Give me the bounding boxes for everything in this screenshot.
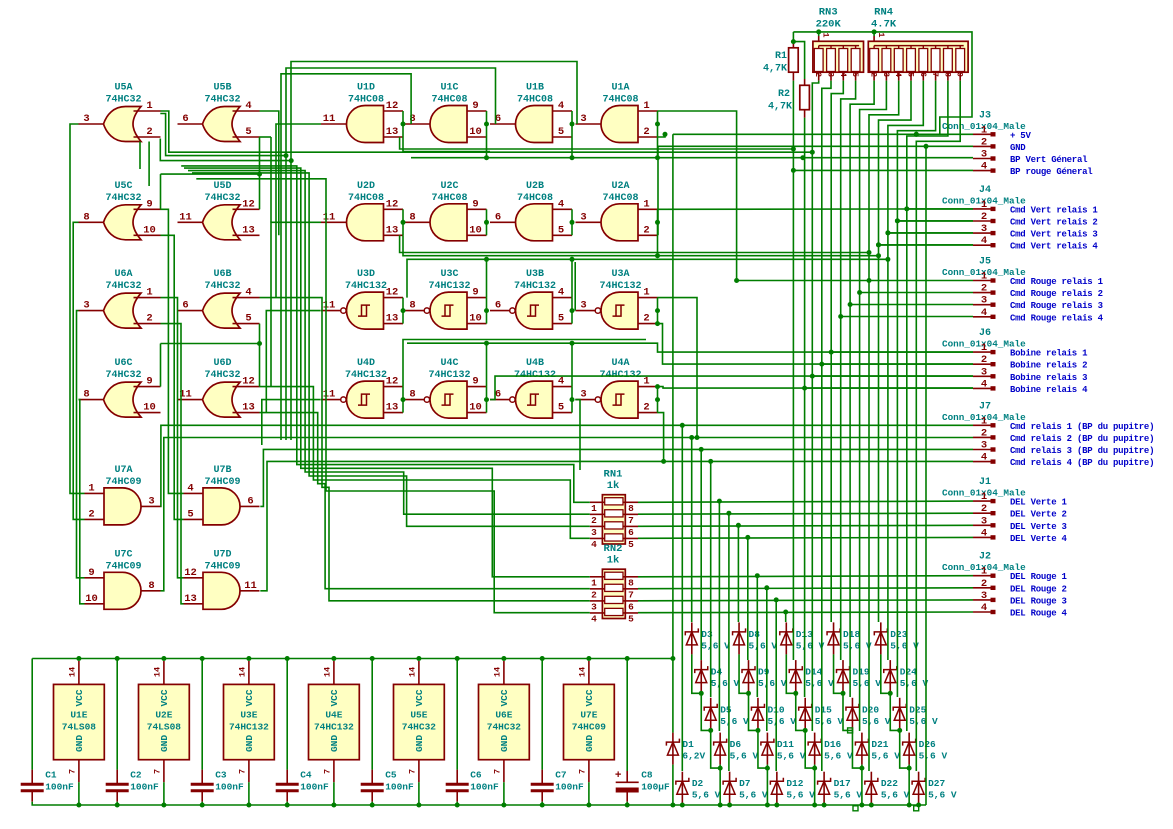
wire (486, 298, 488, 324)
Schmitt NAND gate U4D (321, 358, 403, 418)
svg-text:74HC32: 74HC32 (204, 281, 240, 292)
svg-text:74HC08: 74HC08 (517, 95, 553, 106)
wire (32, 802, 926, 805)
svg-text:74HC32: 74HC32 (204, 370, 240, 381)
wire (638, 611, 973, 614)
junction (484, 397, 489, 402)
svg-text:5,6 V: 5,6 V (796, 640, 825, 651)
wire (286, 802, 288, 805)
svg-text:10: 10 (469, 313, 482, 325)
svg-text:13: 13 (386, 313, 399, 325)
junction (484, 257, 489, 262)
wire (719, 765, 721, 805)
junction (501, 803, 506, 808)
wire (626, 802, 628, 805)
junction (745, 535, 750, 540)
svg-text:74HC08: 74HC08 (348, 193, 384, 204)
zener diode D18 (827, 622, 872, 654)
junction (401, 220, 406, 225)
svg-text:R1: R1 (775, 51, 787, 62)
capacitor C5 (361, 770, 414, 802)
zener diode D22 (865, 772, 910, 804)
wire (897, 220, 973, 222)
svg-text:3: 3 (981, 223, 987, 235)
wire (657, 209, 659, 235)
wire (673, 133, 973, 135)
junction (907, 766, 912, 771)
svg-text:74HC08: 74HC08 (602, 95, 638, 106)
wire (747, 537, 749, 660)
svg-text:1: 1 (981, 491, 987, 503)
wire (571, 259, 573, 297)
wire (672, 134, 674, 732)
svg-text:DEL Rouge 4: DEL Rouge 4 (1010, 609, 1068, 619)
connector J6 Conn_01x04_Male (942, 328, 1088, 395)
wire (812, 375, 973, 377)
svg-text:5: 5 (558, 313, 564, 325)
capacitor C6 (446, 770, 499, 802)
junction (200, 656, 205, 661)
svg-text:U2B: U2B (526, 181, 544, 192)
svg-text:2: 2 (591, 515, 597, 526)
svg-text:9: 9 (472, 100, 478, 112)
wire (812, 81, 818, 731)
svg-text:DEL Verte 2: DEL Verte 2 (1010, 510, 1067, 520)
svg-text:74HC09: 74HC09 (572, 722, 607, 733)
wire (486, 111, 488, 137)
svg-text:74LS08: 74LS08 (147, 722, 182, 733)
svg-text:6,2V: 6,2V (682, 751, 705, 762)
svg-text:74HC32: 74HC32 (487, 722, 522, 733)
junction (661, 459, 666, 464)
svg-text:8: 8 (148, 580, 154, 592)
svg-text:11: 11 (323, 113, 336, 125)
junction (869, 803, 874, 808)
wire (402, 298, 404, 324)
junction (708, 728, 713, 733)
OR gate U5C (79, 181, 161, 240)
svg-text:5,6 V: 5,6 V (881, 790, 910, 801)
svg-text:U2C: U2C (440, 181, 458, 192)
junction (812, 766, 817, 771)
resistor network RN4 (868, 7, 968, 81)
wire (73, 222, 84, 519)
svg-text:1: 1 (981, 199, 987, 211)
wire (196, 179, 590, 613)
svg-text:C7: C7 (555, 770, 567, 781)
svg-text:5,6 V: 5,6 V (701, 640, 730, 651)
wire (785, 612, 787, 622)
svg-text:U2D: U2D (357, 181, 375, 192)
zener diode D3 (685, 622, 730, 654)
svg-text:2: 2 (643, 224, 649, 236)
svg-text:4: 4 (981, 307, 987, 319)
svg-text:9: 9 (955, 72, 964, 77)
wire (879, 81, 912, 622)
junction (699, 691, 704, 696)
svg-text:4: 4 (558, 287, 564, 299)
wire (77, 311, 85, 578)
junction (331, 803, 336, 808)
svg-text:D16: D16 (824, 739, 841, 750)
wire (78, 782, 80, 805)
AND gate U2C (405, 181, 487, 241)
wire (831, 351, 973, 353)
svg-text:5,6 V: 5,6 V (767, 716, 796, 727)
junction (370, 803, 375, 808)
junction (689, 435, 694, 440)
svg-text:U1B: U1B (526, 83, 544, 94)
svg-text:74HC132: 74HC132 (514, 281, 556, 292)
junction (885, 230, 890, 235)
svg-text:2: 2 (981, 354, 987, 366)
svg-text:5: 5 (187, 508, 193, 520)
junction (726, 511, 731, 516)
svg-text:100nF: 100nF (555, 782, 584, 793)
svg-text:U7D: U7D (213, 549, 231, 560)
junction (876, 253, 881, 258)
svg-text:9: 9 (472, 376, 478, 388)
svg-text:VCC: VCC (329, 689, 340, 706)
wire (658, 208, 974, 210)
junction (816, 29, 821, 34)
AND gate U7C (85, 549, 161, 609)
junction (680, 803, 685, 808)
AND gate U7A (85, 465, 161, 525)
svg-text:7: 7 (628, 589, 634, 600)
wire (739, 654, 748, 693)
junction (161, 656, 166, 661)
svg-text:4: 4 (893, 72, 902, 77)
junction (695, 435, 700, 440)
wire (333, 782, 335, 805)
wire (897, 220, 973, 222)
wire (658, 146, 973, 235)
junction (246, 656, 251, 661)
wire (116, 802, 118, 805)
junction (734, 278, 739, 283)
svg-text:9: 9 (472, 287, 478, 299)
svg-text:2: 2 (591, 589, 597, 600)
svg-text:U6B: U6B (213, 269, 231, 280)
wire (31, 659, 33, 770)
svg-text:74HC132: 74HC132 (428, 281, 470, 292)
Schmitt NAND gate U4A (576, 358, 658, 418)
power unit U1E 74LS08 (54, 661, 105, 782)
svg-text:5: 5 (245, 313, 251, 325)
junction (401, 122, 406, 127)
svg-text:100nF: 100nF (470, 782, 499, 793)
svg-text:14: 14 (67, 667, 77, 677)
no-connect square (853, 806, 858, 811)
connector J3 Conn_01x04_Male (942, 110, 1093, 177)
junction (764, 585, 769, 590)
junction (331, 656, 336, 661)
wire (658, 298, 698, 438)
svg-text:8: 8 (83, 389, 89, 401)
OR gate U6D (178, 358, 260, 417)
svg-text:1: 1 (981, 566, 987, 578)
wire (672, 765, 674, 805)
svg-text:1: 1 (146, 100, 152, 112)
svg-text:3: 3 (981, 366, 987, 378)
junction (484, 341, 489, 346)
wire (281, 74, 411, 440)
wire (691, 438, 693, 623)
svg-text:Cmd relais 3 (BP du pupitre): Cmd relais 3 (BP du pupitre) (1010, 446, 1154, 456)
wire (888, 232, 973, 234)
wire (486, 259, 488, 297)
junction (924, 144, 929, 149)
junction (655, 122, 660, 127)
wire (814, 765, 816, 805)
svg-text:3: 3 (981, 295, 987, 307)
svg-text:5: 5 (628, 613, 634, 624)
svg-text:Cmd Vert relais 2: Cmd Vert relais 2 (1010, 218, 1098, 228)
Schmitt NAND gate U3B (490, 269, 572, 329)
wire (541, 659, 543, 770)
junction (746, 691, 751, 696)
wire (541, 802, 543, 805)
wire (291, 62, 577, 441)
wire (657, 137, 659, 158)
svg-text:2: 2 (981, 578, 987, 590)
wire (681, 425, 683, 771)
junction (793, 691, 798, 696)
junction (540, 803, 545, 808)
svg-text:74HC32: 74HC32 (402, 722, 437, 733)
svg-text:GND: GND (584, 735, 595, 752)
svg-text:4: 4 (981, 602, 987, 614)
svg-text:8: 8 (628, 577, 634, 588)
svg-text:14: 14 (577, 667, 587, 677)
svg-text:5,6 V: 5,6 V (928, 790, 957, 801)
zener diode D8 (733, 622, 778, 654)
connector J4 Conn_01x04_Male (942, 185, 1098, 252)
junction (76, 803, 81, 808)
svg-text:12: 12 (184, 567, 197, 579)
svg-text:D12: D12 (786, 778, 803, 789)
svg-text:3: 3 (591, 527, 597, 538)
svg-text:100nF: 100nF (130, 782, 159, 793)
svg-text:5,6 V: 5,6 V (730, 751, 759, 762)
svg-text:C2: C2 (130, 770, 142, 781)
svg-text:1: 1 (643, 287, 649, 299)
wire (729, 804, 731, 805)
wire (571, 298, 573, 324)
svg-text:U2E: U2E (155, 710, 172, 721)
wire (841, 316, 973, 318)
AND gate U1D (321, 83, 403, 143)
svg-text:3: 3 (981, 440, 987, 452)
svg-text:3: 3 (881, 72, 890, 77)
AND gate U1A (576, 83, 658, 143)
wire (571, 137, 573, 158)
svg-text:U6D: U6D (213, 358, 231, 369)
svg-text:5,6 V: 5,6 V (890, 640, 919, 651)
wire (758, 730, 767, 768)
svg-text:U4B: U4B (526, 358, 544, 369)
junction (570, 220, 575, 225)
wire (850, 81, 874, 697)
svg-text:3: 3 (580, 113, 586, 125)
svg-text:74HC132: 74HC132 (599, 281, 641, 292)
wire (638, 501, 973, 502)
wire (681, 804, 683, 805)
wire (259, 324, 261, 387)
wire (822, 363, 973, 365)
zener diode D24 (884, 660, 929, 692)
junction (655, 308, 660, 313)
junction (625, 656, 630, 661)
wire (270, 137, 272, 222)
svg-text:4: 4 (187, 482, 193, 494)
svg-text:D23: D23 (890, 629, 907, 640)
svg-text:U3A: U3A (611, 269, 629, 280)
junction (200, 803, 205, 808)
OR gate U5B (178, 83, 260, 142)
svg-text:100nF: 100nF (45, 782, 74, 793)
svg-text:74HC32: 74HC32 (105, 95, 141, 106)
svg-text:U7B: U7B (213, 465, 231, 476)
svg-text:J7: J7 (979, 401, 991, 412)
svg-text:11: 11 (323, 300, 336, 312)
svg-text:5: 5 (558, 126, 564, 138)
wire (201, 802, 203, 805)
svg-text:U2A: U2A (611, 181, 629, 192)
svg-text:D22: D22 (881, 778, 898, 789)
svg-text:U3C: U3C (440, 269, 458, 280)
svg-text:10: 10 (469, 126, 482, 138)
svg-text:DEL Rouge 2: DEL Rouge 2 (1010, 584, 1067, 594)
wire (148, 142, 150, 187)
wire (900, 730, 909, 768)
svg-text:Bobine relais 4: Bobine relais 4 (1010, 385, 1088, 395)
wire (402, 387, 404, 413)
junction (736, 523, 741, 528)
wire (822, 81, 831, 771)
svg-text:3: 3 (981, 515, 987, 527)
junction (774, 597, 779, 602)
wire (403, 137, 490, 152)
wire (888, 81, 923, 660)
wire (571, 387, 573, 413)
svg-text:2: 2 (869, 72, 878, 77)
svg-text:3: 3 (591, 601, 597, 612)
svg-text:U5B: U5B (213, 83, 231, 94)
svg-text:9: 9 (146, 198, 152, 210)
svg-text:12: 12 (386, 376, 399, 388)
svg-text:U1D: U1D (357, 83, 375, 94)
wire (503, 782, 505, 805)
svg-text:5,6 V: 5,6 V (711, 678, 740, 689)
resistor network RN1 (590, 469, 638, 550)
junction (655, 220, 660, 225)
svg-text:U1A: U1A (611, 83, 629, 94)
svg-text:5,6 V: 5,6 V (824, 751, 853, 762)
junction (586, 803, 591, 808)
wire (161, 343, 260, 345)
svg-text:4: 4 (558, 376, 564, 388)
svg-text:74HC32: 74HC32 (105, 193, 141, 204)
wire (188, 171, 590, 515)
wire (407, 259, 888, 297)
svg-text:D27: D27 (928, 778, 945, 789)
AND gate U1B (490, 83, 572, 143)
zener diode D17 (818, 772, 863, 804)
svg-text:13: 13 (386, 126, 399, 138)
wire (260, 413, 590, 589)
svg-text:12: 12 (386, 100, 399, 112)
junction (718, 766, 723, 771)
junction (455, 656, 460, 661)
svg-text:7: 7 (67, 769, 77, 774)
junction (888, 691, 893, 696)
svg-text:U6A: U6A (114, 269, 132, 280)
svg-text:4: 4 (981, 378, 987, 390)
svg-text:11: 11 (244, 580, 257, 592)
svg-text:U4C: U4C (440, 358, 458, 369)
wire (262, 400, 321, 445)
svg-text:100nF: 100nF (215, 782, 244, 793)
junction (284, 153, 289, 158)
junction (755, 728, 760, 733)
wire (486, 137, 488, 158)
junction (484, 155, 489, 160)
power unit U3E 74HC132 (224, 661, 275, 782)
svg-text:74HC132: 74HC132 (345, 370, 387, 381)
svg-text:2: 2 (981, 503, 987, 515)
svg-text:13: 13 (242, 224, 255, 236)
svg-text:74HC09: 74HC09 (204, 561, 240, 572)
svg-text:74HC09: 74HC09 (204, 477, 240, 488)
svg-text:1: 1 (981, 342, 987, 354)
wire (776, 804, 778, 805)
svg-text:74LS08: 74LS08 (62, 722, 97, 733)
wire (400, 235, 869, 252)
junction (655, 384, 660, 389)
svg-text:BP rouge Géneral: BP rouge Géneral (1010, 167, 1093, 177)
junction (838, 314, 843, 319)
wire (766, 765, 768, 805)
svg-text:DEL Verte 4: DEL Verte 4 (1010, 534, 1068, 544)
junction (885, 257, 890, 262)
capacitor C2 (106, 770, 159, 802)
svg-text:7: 7 (152, 769, 162, 774)
svg-text:74HC09: 74HC09 (105, 561, 141, 572)
svg-text:4: 4 (838, 72, 847, 77)
junction (115, 803, 120, 808)
svg-text:D5: D5 (720, 704, 732, 715)
junction (872, 29, 877, 34)
svg-text:5,6 V: 5,6 V (909, 716, 938, 727)
svg-text:100µF: 100µF (641, 782, 670, 793)
svg-text:74HC32: 74HC32 (105, 281, 141, 292)
svg-text:U7C: U7C (114, 549, 132, 560)
svg-text:4: 4 (981, 235, 987, 247)
junction (484, 308, 489, 313)
svg-text:7: 7 (237, 769, 247, 774)
svg-text:U1E: U1E (70, 710, 87, 721)
zener diode D27 (912, 772, 957, 804)
zener diode D23 (874, 622, 919, 654)
resistor network RN2 (590, 543, 638, 624)
wire (371, 802, 373, 805)
svg-text:1: 1 (88, 482, 94, 494)
connector J5 Conn_01x04_Male (942, 257, 1104, 324)
junction (540, 656, 545, 661)
svg-text:12: 12 (386, 287, 399, 299)
